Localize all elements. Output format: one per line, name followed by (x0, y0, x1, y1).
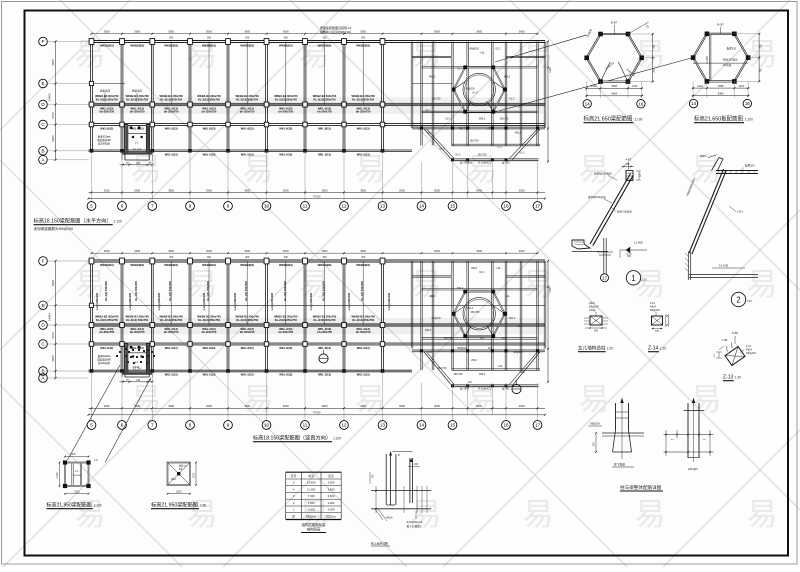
svg-text:Φ-10@4C0: Φ-10@4C0 (478, 388, 491, 391)
svg-text:未标明梁箍筋为Φ8@200: 未标明梁箍筋为Φ8@200 (34, 226, 74, 231)
svg-text:bh-350x750: bh-350x750 (130, 110, 145, 114)
svg-text:WKB2(B3): WKB2(B3) (100, 263, 114, 267)
svg-text:3600: 3600 (434, 249, 440, 253)
axis A (39, 374, 48, 383)
roof slope section 2 (689, 169, 726, 254)
svg-text:Φ8@200: Φ8@200 (513, 351, 523, 354)
hexagon inner ring beam (463, 298, 495, 330)
detail B dim line 2 (664, 451, 714, 453)
svg-text:屋面板配筋图见结施-12: 屋面板配筋图见结施-12 (320, 25, 352, 30)
hexagon column (491, 334, 495, 338)
svg-text:WKL-8(13): WKL-8(13) (318, 346, 331, 350)
svg-text:易: 易 (635, 497, 666, 532)
svg-text:KL-3: KL-3 (510, 99, 516, 101)
svg-text:板厚120мм: 板厚120мм (98, 135, 111, 139)
svg-text:Z-13: Z-13 (723, 375, 734, 381)
column line (304, 261, 306, 371)
svg-text:7200: 7200 (548, 67, 552, 73)
svg-text:3900: 3900 (322, 404, 328, 408)
svg-text:易: 易 (467, 152, 498, 187)
svg-text:KZ-1: KZ-1 (480, 272, 486, 274)
svg-text:2100: 2100 (70, 453, 76, 456)
tower column line (421, 261, 422, 370)
svg-text:WKL-5(13): WKL-5(13) (318, 373, 331, 377)
svg-text:梯下60预埋S: 梯下60预埋S (407, 525, 422, 529)
svg-text:易: 易 (411, 267, 442, 302)
tower beam stub (412, 56, 451, 57)
svg-text:KL-1(1) 250x500: KL-1(1) 250x500 (360, 280, 364, 300)
column line (151, 42, 153, 151)
svg-text:WKL-5(13): WKL-5(13) (165, 152, 178, 156)
svg-text:300: 300 (323, 37, 328, 40)
column line (266, 42, 268, 151)
svg-text:WKL-5(13): WKL-5(13) (279, 373, 292, 377)
svg-text:KZ-1: KZ-1 (502, 338, 508, 340)
svg-text:300: 300 (169, 37, 174, 40)
svg-text:Φ8@200: Φ8@200 (590, 423, 600, 426)
svg-text:10: 10 (264, 204, 270, 209)
svg-text:WKB2(B3): WKB2(B3) (100, 44, 114, 48)
svg-text:3600: 3600 (168, 30, 174, 34)
svg-text:WKL2: WKL2 (515, 133, 522, 135)
axis C (39, 120, 48, 129)
svg-text:3600: 3600 (134, 249, 140, 253)
svg-text:240: 240 (626, 163, 631, 166)
svg-text:WKL-8(13): WKL-8(13) (100, 126, 113, 130)
top dimension line (92, 33, 538, 35)
svg-text:L-1(1) 200x400: L-1(1) 200x400 (234, 292, 237, 310)
svg-text:3600: 3600 (168, 249, 174, 253)
svg-text:14.500: 14.500 (719, 264, 729, 268)
column line (304, 42, 306, 151)
beam C line (89, 343, 546, 345)
axis 17 (533, 202, 542, 211)
svg-text:WKL-8(13): WKL-8(13) (165, 126, 178, 130)
svg-text:WKL-5(13): WKL-5(13) (241, 152, 254, 156)
column (188, 369, 192, 373)
svg-text:3900: 3900 (399, 404, 405, 408)
svg-text:720: 720 (136, 379, 141, 382)
roof slope section 1 (590, 174, 633, 246)
svg-text:双层双向Φ8: 双层双向Φ8 (97, 358, 111, 362)
svg-text:9: 9 (227, 423, 230, 428)
storey level table (286, 472, 342, 519)
svg-text:7: 7 (151, 423, 154, 428)
svg-text:WKL-8(13): WKL-8(13) (279, 346, 292, 350)
svg-text:WKL-5(13): WKL-5(13) (318, 152, 331, 156)
svg-text:标高21.950梁配筋图: 标高21.950梁配筋图 (151, 501, 198, 509)
svg-text:1:20: 1:20 (642, 278, 648, 282)
svg-text:KL-2(13) 350x750: KL-2(13) 350x750 (275, 318, 297, 322)
svg-text:300: 300 (284, 37, 289, 40)
svg-text:WKB2(B3): WKB2(B3) (164, 44, 178, 48)
svg-text:bh-350x750: bh-350x750 (202, 330, 217, 334)
svg-text:750: 750 (653, 44, 656, 49)
column line (189, 261, 191, 371)
hip roof line (512, 129, 540, 160)
parapet column detail (590, 316, 602, 325)
svg-text:柱与梁整体配筋详图: 柱与梁整体配筋详图 (620, 484, 662, 491)
column line (91, 42, 93, 151)
svg-text:WKL-8(13): WKL-8(13) (357, 126, 370, 130)
svg-text:bh-350x750: bh-350x750 (99, 330, 114, 334)
axis 9 (224, 421, 233, 430)
svg-text:bh-350x750: bh-350x750 (240, 110, 255, 114)
svg-text:16: 16 (638, 101, 643, 106)
column (151, 369, 155, 373)
svg-text:L-5a: L-5a (505, 296, 510, 298)
axis 13 (378, 421, 387, 430)
svg-text:标高: 标高 (308, 474, 314, 478)
column (226, 149, 230, 153)
svg-text:3900: 3900 (399, 188, 405, 192)
svg-text:Z-14: Z-14 (648, 346, 659, 352)
svg-text:3000: 3000 (519, 404, 525, 408)
svg-text:14: 14 (585, 101, 590, 106)
svg-text:WKL2: WKL2 (509, 318, 516, 320)
svg-text:2Φ18: 2Φ18 (519, 371, 525, 374)
svg-text:3600: 3600 (519, 30, 525, 34)
tower column line (452, 42, 453, 146)
hexagon column (584, 56, 589, 61)
hexagon column (491, 110, 495, 114)
axis D (39, 321, 48, 330)
svg-text:2Φ18: 2Φ18 (471, 359, 477, 362)
svg-text:KL-3: KL-3 (440, 149, 446, 151)
tower column line (520, 42, 522, 146)
svg-text:bh-350x750: bh-350x750 (278, 110, 293, 114)
bot plan mid-bay mullions (170, 261, 172, 325)
svg-text:2Φ18: 2Φ18 (471, 267, 477, 270)
hexagon column (598, 32, 603, 37)
svg-text:300: 300 (361, 256, 366, 259)
svg-text:L-5a: L-5a (498, 366, 503, 368)
hexagon dimension lines (692, 87, 750, 89)
section 2 floor line (689, 275, 758, 278)
svg-text:350x750: 350x750 (471, 312, 481, 314)
axis 9 (224, 202, 233, 211)
axis 6 (118, 421, 127, 430)
axis circle section1 (601, 274, 609, 282)
hexagon detail 2 (21.650 slab plan) (693, 34, 748, 82)
svg-text:KL-3: KL-3 (428, 133, 434, 135)
svg-text:标高21.950梁配筋图: 标高21.950梁配筋图 (47, 502, 92, 509)
axis 16 (502, 202, 511, 211)
svg-text:1:50: 1:50 (200, 504, 206, 508)
svg-text:L-1(1) 200x400: L-1(1) 200x400 (348, 292, 351, 310)
svg-text:6: 6 (121, 204, 124, 209)
tower eave line (452, 159, 539, 161)
svg-text:WKB2(B3): WKB2(B3) (279, 263, 293, 267)
svg-text:WKL-8(13): WKL-8(13) (318, 126, 331, 130)
svg-text:挑梁端部: 挑梁端部 (132, 89, 143, 93)
svg-text:L-1(1) 200x400: L-1(1) 200x400 (388, 292, 391, 310)
svg-text:WKB2(B3): WKB2(B3) (279, 44, 293, 48)
svg-text:KZ-1: KZ-1 (488, 129, 494, 131)
svg-text:3900: 3900 (283, 188, 289, 192)
dimension line (89, 192, 546, 194)
svg-text:2Φ14@6: 2Φ14@6 (688, 468, 698, 471)
svg-text:3600: 3600 (206, 30, 212, 34)
section 1 parapet (626, 171, 633, 181)
svg-text:WKB2(B3): WKB2(B3) (240, 44, 254, 48)
svg-text:300: 300 (245, 37, 250, 40)
tower beam (452, 369, 541, 371)
column (381, 149, 385, 153)
top plan staircase bay (125, 125, 128, 154)
svg-text:300: 300 (245, 256, 250, 259)
tower right edge (544, 42, 546, 129)
svg-text:3000: 3000 (134, 188, 140, 192)
axis 12 (340, 421, 349, 430)
axis A (39, 156, 48, 165)
top dimension line (92, 252, 538, 254)
column line (227, 261, 229, 371)
svg-text:WKL-8(13): WKL-8(13) (279, 126, 292, 130)
axis C (39, 340, 48, 349)
svg-text:3000: 3000 (104, 188, 110, 192)
section 2 column (688, 252, 690, 281)
svg-text:3900: 3900 (168, 404, 174, 408)
svg-text:板厚120 双层双向Φ8@200: 板厚120 双层双向Φ8@200 (320, 30, 352, 34)
svg-text:bh-350x750: bh-350x750 (164, 110, 179, 114)
axis 11 (301, 421, 310, 430)
axis 8 (186, 421, 195, 430)
beam E line (89, 304, 546, 306)
svg-text:3900: 3900 (206, 188, 212, 192)
axis 12 (340, 202, 349, 211)
hex inner beam (493, 82, 504, 90)
tower column line (467, 42, 469, 146)
svg-text:1:100: 1:100 (94, 504, 102, 508)
svg-text:3.600: 3.600 (328, 501, 335, 505)
top plan mid-bay mullions (170, 42, 172, 105)
svg-text:E: E (41, 303, 44, 308)
svg-text:KL-2(13) 350x750: KL-2(13) 350x750 (198, 97, 220, 101)
svg-text:350x750: 350x750 (454, 374, 464, 376)
svg-text:8: 8 (189, 204, 192, 209)
bot plan left dimension line (55, 261, 57, 378)
svg-text:17: 17 (535, 423, 541, 428)
stair dense rebar marks (125, 348, 127, 350)
hexagon internal bracing (601, 62, 611, 82)
svg-text:WKL2: WKL2 (429, 77, 436, 79)
svg-text:3600: 3600 (519, 249, 525, 253)
tower column line (537, 42, 538, 146)
svg-text:梯上起步详图: 梯上起步详图 (371, 542, 388, 546)
svg-text:300: 300 (284, 256, 289, 259)
svg-text:3600: 3600 (283, 30, 289, 34)
dimension line (89, 198, 546, 200)
svg-text:3600: 3600 (244, 249, 250, 253)
rebar verticals (386, 452, 396, 506)
axis F (39, 257, 48, 266)
svg-text:标高21.650梁配筋图: 标高21.650梁配筋图 (584, 115, 633, 123)
svg-text:WKL-8(13): WKL-8(13) (203, 126, 216, 130)
hexagon column (463, 290, 467, 294)
svg-text:3900: 3900 (244, 188, 250, 192)
svg-text:47700: 47700 (313, 194, 321, 198)
svg-text:Φ: Φ (398, 454, 400, 457)
svg-text:350x750: 350x750 (444, 338, 454, 340)
svg-text:3600: 3600 (476, 249, 482, 253)
svg-text:47700: 47700 (313, 411, 321, 415)
svg-text:KL-1(1) 250x500: KL-1(1) 250x500 (168, 280, 172, 300)
svg-text:易: 易 (747, 267, 778, 302)
svg-text:WKL2: WKL2 (425, 111, 432, 113)
svg-text:梁Φ8@200拉筋: 梁Φ8@200拉筋 (588, 195, 606, 199)
svg-text:3600: 3600 (244, 30, 250, 34)
svg-text:Φ6@200: Φ6@200 (746, 352, 756, 355)
svg-text:易: 易 (635, 267, 666, 302)
svg-text:易: 易 (243, 152, 274, 187)
section mark circle bottom plan (319, 354, 328, 363)
svg-text:易: 易 (579, 382, 610, 417)
svg-text:J-1: J-1 (135, 142, 139, 145)
hexagon detail 1 (21.650 beam plan) (587, 34, 642, 82)
svg-text:7.450: 7.450 (308, 494, 315, 498)
svg-text:KL-2(13) 350x750: KL-2(13) 350x750 (160, 97, 182, 101)
svg-text:易: 易 (523, 497, 554, 532)
bot plan column axis circles and dimensions (91, 371, 93, 421)
svg-text:3900: 3900 (360, 404, 366, 408)
svg-text:5: 5 (90, 423, 93, 428)
svg-text:13: 13 (380, 204, 386, 209)
svg-text:5400: 5400 (476, 404, 482, 408)
svg-text:KL-2(13) 350x750: KL-2(13) 350x750 (236, 97, 258, 101)
hex inner beam (465, 326, 471, 336)
svg-text:1:20: 1:20 (607, 347, 613, 351)
svg-text:KL-2(13) 350x750: KL-2(13) 350x750 (352, 97, 374, 101)
beam B line (89, 150, 413, 152)
hexagon dimension lines (585, 87, 643, 89)
svg-text:17: 17 (602, 275, 607, 280)
svg-text:1443: 1443 (632, 85, 638, 88)
hexagon column (626, 32, 631, 37)
hip roof line (512, 352, 540, 386)
detail B dim line 1 (664, 434, 714, 436)
column (342, 369, 346, 373)
column (226, 369, 230, 373)
svg-text:2%找坡: 2%找坡 (723, 63, 732, 67)
column (120, 149, 124, 153)
svg-text:KZ-1: KZ-1 (518, 107, 524, 109)
tower left edge (411, 261, 413, 349)
svg-text:易: 易 (747, 497, 778, 532)
svg-text:KL-2(13) 350x750: KL-2(13) 350x750 (236, 318, 258, 322)
svg-text:3000: 3000 (434, 188, 440, 192)
svg-text:WKL-5(13): WKL-5(13) (357, 373, 370, 377)
svg-text:350x750: 350x750 (500, 119, 510, 121)
svg-text:13: 13 (380, 423, 386, 428)
21.950 beam detail 2 (168, 463, 191, 486)
tower column line (467, 261, 469, 370)
column line (121, 261, 123, 371)
svg-text:3600: 3600 (360, 249, 366, 253)
svg-text:WKB2(B3): WKB2(B3) (202, 263, 216, 267)
corner column (63, 484, 67, 488)
svg-text:斜ΦL7@筋长: 斜ΦL7@筋长 (617, 210, 632, 214)
axis B (39, 367, 48, 376)
svg-text:Φ14@600-1S: Φ14@600-1S (407, 520, 423, 524)
svg-text:15: 15 (450, 204, 456, 209)
beam E stub (89, 83, 126, 85)
svg-text:14: 14 (419, 423, 425, 428)
column line (121, 42, 123, 151)
svg-text:11: 11 (303, 204, 308, 209)
svg-text:KL-3: KL-3 (518, 326, 524, 328)
svg-text:KL-2(13) 350x750: KL-2(13) 350x750 (126, 318, 148, 322)
svg-text:WKB2(B3): WKB2(B3) (356, 44, 370, 48)
svg-text:6900: 6900 (51, 135, 55, 142)
axis 10 (262, 202, 271, 211)
svg-text:bh-350x750: bh-350x750 (99, 110, 114, 114)
svg-text:11: 11 (303, 423, 308, 428)
svg-text:250x500: 250x500 (73, 475, 82, 477)
svg-text:1:100: 1:100 (745, 118, 753, 122)
svg-text:WKL-8(13): WKL-8(13) (100, 346, 113, 350)
svg-text:Φ-Φ5: Φ-Φ5 (732, 332, 739, 335)
svg-text:L-1(1) 200x400: L-1(1) 200x400 (129, 292, 132, 310)
svg-text:bh-350x750: bh-350x750 (356, 330, 371, 334)
svg-text:1443: 1443 (591, 85, 597, 88)
tower beam (422, 111, 538, 113)
svg-text:3.600: 3.600 (328, 481, 335, 485)
svg-text:易: 易 (131, 152, 162, 187)
svg-text:Φ-10@4C0: Φ-10@4C0 (478, 162, 491, 165)
column (90, 149, 94, 153)
axis 11 (301, 202, 310, 211)
svg-text:KL-1(1) 250x500: KL-1(1) 250x500 (283, 280, 287, 300)
column line (343, 42, 345, 151)
hexagon column (626, 79, 631, 84)
hex inner beam (487, 102, 493, 112)
svg-text:L-1(1) 200x400: L-1(1) 200x400 (158, 292, 161, 310)
axis F (39, 37, 48, 46)
svg-text:12: 12 (341, 423, 347, 428)
svg-text:F: F (42, 39, 45, 44)
hip roof line (424, 352, 452, 386)
tower left edge (411, 42, 413, 129)
svg-text:21.650: 21.650 (706, 56, 709, 64)
svg-text:Φ6@200: Φ6@200 (650, 309, 660, 312)
axis 13 (378, 202, 387, 211)
svg-text:双层双向Φ8: 双层双向Φ8 (97, 138, 111, 142)
svg-text:4-Φ7: 4-Φ7 (626, 158, 632, 162)
hexagon column (491, 290, 495, 294)
svg-text:B: B (41, 369, 44, 374)
svg-text:4Φ14: 4Φ14 (386, 516, 393, 520)
svg-text:WKL-5(13): WKL-5(13) (279, 152, 292, 156)
svg-text:WKL2: WKL2 (459, 129, 466, 131)
corner column (86, 460, 90, 464)
svg-text:Φ8@150双向: Φ8@150双向 (723, 58, 739, 62)
tower beam (412, 350, 545, 352)
svg-text:WKL-5(13): WKL-5(13) (203, 152, 216, 156)
svg-text:L-1(1) 200x400: L-1(1) 200x400 (310, 292, 313, 310)
svg-text:KL-2(13) 350x750: KL-2(13) 350x750 (275, 97, 297, 101)
svg-text:6900: 6900 (51, 59, 55, 66)
column line (151, 261, 153, 371)
column (188, 149, 192, 153)
tower column line (452, 261, 453, 370)
svg-text:300: 300 (323, 256, 328, 259)
svg-text:L-5a: L-5a (468, 163, 473, 165)
svg-text:WKL-5(13): WKL-5(13) (357, 152, 370, 156)
column line (343, 261, 345, 371)
svg-text:Φ8@200: Φ8@200 (465, 88, 475, 91)
svg-text:KL-2(13) 350x750: KL-2(13) 350x750 (96, 318, 118, 322)
